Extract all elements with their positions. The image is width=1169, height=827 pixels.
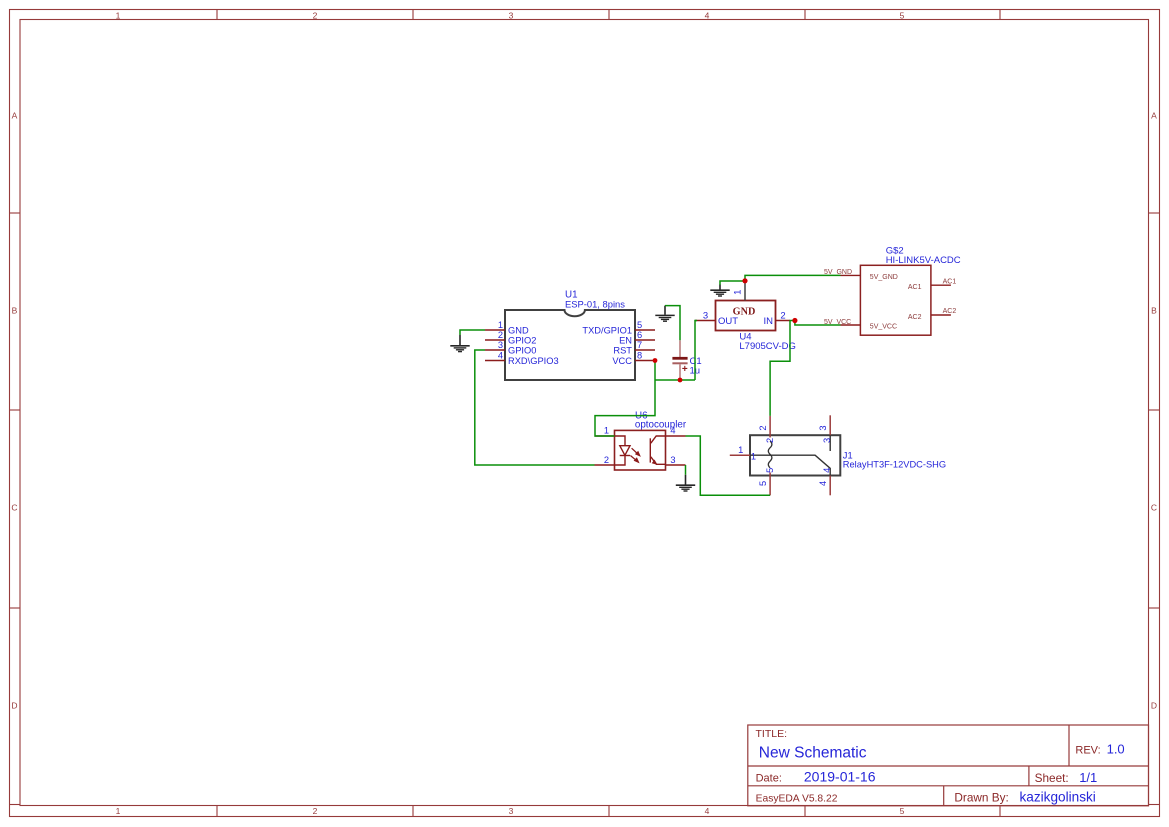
svg-text:OUT: OUT xyxy=(718,316,738,327)
ground symbol at U6 pin3 xyxy=(676,475,695,491)
capacitor C1 xyxy=(672,340,701,380)
wire U6 pin3 to ground xyxy=(685,465,687,475)
J1 pin 1 xyxy=(730,445,756,461)
svg-text:C: C xyxy=(11,502,17,512)
junction node at U4 IN xyxy=(792,318,797,323)
U1 body xyxy=(505,310,635,380)
svg-text:GPIO2: GPIO2 xyxy=(508,335,536,345)
svg-text:4: 4 xyxy=(498,350,503,360)
C1 bottom lead xyxy=(679,364,681,380)
relay J1 xyxy=(730,415,946,495)
wire VCC net horizontal at C1 xyxy=(655,379,695,381)
G$2 pin 5V_VCC xyxy=(841,324,898,331)
wire U6 pin4 to relay pin5 xyxy=(686,436,771,495)
svg-text:4: 4 xyxy=(822,468,832,473)
svg-text:Date:: Date: xyxy=(756,773,782,785)
wire U4 GND to ground xyxy=(720,281,745,285)
svg-text:Sheet:: Sheet: xyxy=(1035,771,1069,785)
U6 pin 1 xyxy=(595,426,615,436)
U4 pin 1 GND top xyxy=(732,281,745,301)
svg-text:AC1: AC1 xyxy=(908,284,922,291)
svg-text:4: 4 xyxy=(705,806,710,816)
U6 pin 3 xyxy=(666,455,686,465)
svg-text:TXD/GPIO1: TXD/GPIO1 xyxy=(582,325,632,335)
svg-text:kazikgolinski: kazikgolinski xyxy=(1020,790,1096,805)
C1 bottom plate xyxy=(672,362,687,364)
svg-text:C: C xyxy=(1151,502,1157,512)
wire C1 to U4 OUT xyxy=(695,321,697,381)
U6 LED arrows xyxy=(630,448,641,463)
svg-text:5V_GND: 5V_GND xyxy=(870,274,898,281)
svg-text:A: A xyxy=(12,110,18,120)
svg-text:AC1: AC1 xyxy=(943,278,957,285)
U1 pin 1 GND xyxy=(485,320,529,336)
svg-text:ESP-01, 8pins: ESP-01, 8pins xyxy=(565,299,625,310)
J1 switch xyxy=(750,455,830,475)
module G$2 HI-LINK5V-ACDC xyxy=(824,246,961,336)
svg-text:1: 1 xyxy=(751,451,756,461)
U6 pin 2 xyxy=(595,455,615,465)
svg-text:5V_VCC: 5V_VCC xyxy=(870,324,897,331)
U6 LED xyxy=(615,436,631,465)
svg-text:AC2: AC2 xyxy=(943,308,957,315)
svg-text:1: 1 xyxy=(738,445,743,455)
svg-text:1: 1 xyxy=(732,290,743,295)
svg-text:TITLE:: TITLE: xyxy=(756,728,788,740)
junction node at U4 GND xyxy=(742,278,747,283)
svg-text:L7905CV-DG: L7905CV-DG xyxy=(739,341,796,352)
svg-text:2: 2 xyxy=(780,310,785,321)
J1 body xyxy=(750,435,840,475)
svg-text:4: 4 xyxy=(705,10,710,20)
svg-text:6: 6 xyxy=(637,330,642,340)
svg-text:1.0: 1.0 xyxy=(1107,742,1125,757)
wire U4 GND to 5V_GND xyxy=(745,275,841,280)
svg-text:7: 7 xyxy=(637,340,642,350)
junction node at U1 pin8 xyxy=(653,358,658,363)
U1 pin 7 RST xyxy=(613,340,655,356)
U1 pin 4 RXD/GPIO3 xyxy=(485,350,559,366)
wire U4 IN down to relay pin2 xyxy=(770,321,790,416)
svg-text:3: 3 xyxy=(703,310,708,321)
G$2 pin AC1 xyxy=(908,278,956,291)
svg-text:2: 2 xyxy=(313,806,318,816)
svg-text:5: 5 xyxy=(758,481,768,486)
svg-text:5: 5 xyxy=(900,10,905,20)
IC U1 ESP-01 xyxy=(485,290,655,380)
U1 pin 6 EN xyxy=(619,330,655,346)
G$2 pin AC2 xyxy=(908,308,956,321)
svg-text:IN: IN xyxy=(764,316,774,327)
svg-text:A: A xyxy=(1151,110,1157,120)
optocoupler U6 xyxy=(595,411,687,470)
svg-text:2: 2 xyxy=(604,455,609,465)
svg-text:D: D xyxy=(1151,700,1157,710)
svg-text:REV:: REV: xyxy=(1075,745,1100,757)
regulator U4 L7905CV-DG xyxy=(695,281,796,352)
svg-text:GND: GND xyxy=(508,325,529,335)
U6 pin 4 xyxy=(666,426,686,436)
wire VCC net from U1 pin8 down xyxy=(595,361,655,437)
svg-text:2019-01-16: 2019-01-16 xyxy=(804,769,876,785)
wire C1 top to ground xyxy=(665,306,680,341)
svg-text:EasyEDA V5.8.22: EasyEDA V5.8.22 xyxy=(756,793,838,804)
svg-text:5: 5 xyxy=(765,468,775,473)
svg-text:VCC: VCC xyxy=(612,356,632,366)
wire U1 pin3 GPIO0 down xyxy=(475,350,595,465)
J1 coil xyxy=(768,441,772,468)
svg-text:5: 5 xyxy=(637,320,642,330)
U1 pin 2 GPIO2 xyxy=(485,330,536,346)
J1 pin 2 xyxy=(758,416,775,443)
svg-text:1: 1 xyxy=(498,320,503,330)
U4 pin 3 OUT xyxy=(695,310,738,327)
svg-text:3: 3 xyxy=(498,340,503,350)
svg-text:8: 8 xyxy=(637,350,642,360)
svg-text:+: + xyxy=(682,364,688,375)
C1 top lead xyxy=(679,340,681,357)
svg-text:4: 4 xyxy=(818,481,828,486)
J1 contact pin3 xyxy=(829,435,831,451)
svg-text:B: B xyxy=(1151,305,1157,315)
C1 top plate xyxy=(672,357,687,360)
svg-text:3: 3 xyxy=(509,806,514,816)
ground symbol at U1 pin1 xyxy=(450,335,469,352)
wire U4 IN to 5V_VCC xyxy=(795,321,841,326)
svg-text:AC2: AC2 xyxy=(908,314,922,321)
svg-text:1/1: 1/1 xyxy=(1079,770,1097,785)
svg-text:2: 2 xyxy=(765,438,775,443)
G$2 body xyxy=(860,265,931,335)
svg-text:GPIO0: GPIO0 xyxy=(508,345,536,355)
svg-text:3: 3 xyxy=(670,455,675,465)
svg-text:5: 5 xyxy=(900,806,905,816)
svg-text:RST: RST xyxy=(613,345,632,355)
svg-text:RelayHT3F-12VDC-SHG: RelayHT3F-12VDC-SHG xyxy=(843,460,946,470)
G$2 pin 5V_GND xyxy=(841,274,898,281)
wire U1 pin1 to ground xyxy=(460,330,485,335)
svg-text:3: 3 xyxy=(818,426,828,431)
J1 pin 5 xyxy=(758,468,775,496)
svg-text:optocoupler: optocoupler xyxy=(635,419,687,430)
ground symbol at U4 GND xyxy=(710,285,729,297)
svg-text:3: 3 xyxy=(822,438,832,443)
svg-text:2: 2 xyxy=(758,426,768,431)
svg-text:EN: EN xyxy=(619,335,632,345)
U1 pin 5 TXD/GPIO1 xyxy=(582,320,655,336)
svg-text:B: B xyxy=(12,305,18,315)
svg-text:RXD\GPIO3: RXD\GPIO3 xyxy=(508,356,559,366)
U6 phototransistor xyxy=(650,436,665,464)
wire U4 IN node xyxy=(790,320,796,322)
svg-text:1: 1 xyxy=(116,10,121,20)
J1 pin 4 xyxy=(818,468,832,496)
svg-text:2: 2 xyxy=(313,10,318,20)
U4 pin 2 IN xyxy=(764,310,791,327)
svg-text:HI-LINK5V-ACDC: HI-LINK5V-ACDC xyxy=(886,255,961,266)
svg-text:1: 1 xyxy=(604,426,609,436)
svg-text:D: D xyxy=(11,700,17,710)
svg-text:Drawn By:: Drawn By: xyxy=(954,790,1008,804)
svg-text:2: 2 xyxy=(498,330,503,340)
U1 pin 8 VCC xyxy=(612,350,655,366)
J1 pin 3 xyxy=(818,415,832,443)
svg-text:New Schematic: New Schematic xyxy=(759,745,867,762)
U1 pin 3 GPIO0 xyxy=(485,340,536,356)
junction node at C1 bottom xyxy=(678,378,683,383)
U4 body xyxy=(716,301,776,331)
svg-text:1: 1 xyxy=(116,806,121,816)
svg-text:3: 3 xyxy=(509,10,514,20)
ground symbol near C1 xyxy=(655,306,674,322)
U6 body xyxy=(615,430,666,470)
